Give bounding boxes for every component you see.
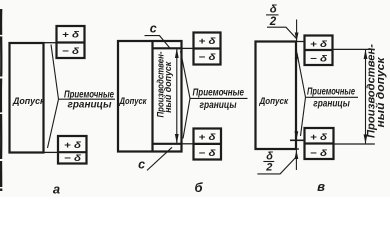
tolerance rectangle (v) xyxy=(256,42,297,150)
svg-text:Допуск: Допуск xyxy=(12,96,45,107)
production tolerance dimension arrow (b) xyxy=(176,49,178,143)
top boundary line extension (a) xyxy=(44,42,57,44)
bottom boundary connector (b) xyxy=(182,143,194,145)
bottom boundary line extension (a) xyxy=(44,151,59,153)
svg-text:δ: δ xyxy=(266,150,273,162)
svg-text:+ δ: + δ xyxy=(310,38,327,49)
top boundary extension right (v) xyxy=(333,48,375,50)
svg-text:− δ: − δ xyxy=(62,45,79,56)
svg-text:границы: границы xyxy=(68,100,112,111)
svg-text:− δ: − δ xyxy=(64,152,81,163)
bottom limit line stub (v) xyxy=(296,148,299,150)
leader line to top boundary (b) xyxy=(181,51,191,98)
callout underline (v) xyxy=(306,96,359,98)
production tolerance dimension arrow (v) xyxy=(365,50,367,143)
tolerance rectangle (a) xyxy=(10,43,44,153)
svg-text:+ δ: + δ xyxy=(62,29,79,40)
svg-text:Приемочные: Приемочные xyxy=(193,87,245,98)
svg-text:− δ: − δ xyxy=(310,52,327,63)
top δ/2 dimension arrows (v) xyxy=(296,20,298,63)
svg-text:Допуск: Допуск xyxy=(259,96,289,107)
svg-text:а: а xyxy=(53,182,60,197)
bottom limit boxes +δ/-δ (a) xyxy=(58,136,87,164)
svg-text:+ δ: + δ xyxy=(199,131,216,142)
leader line to top boundary (v) xyxy=(297,53,306,97)
svg-text:+ δ: + δ xyxy=(199,35,216,46)
production band top edge (b) xyxy=(153,47,182,49)
svg-text:− δ: − δ xyxy=(310,147,327,158)
production band bottom edge (b) xyxy=(153,143,182,145)
svg-text:δ: δ xyxy=(270,4,278,16)
svg-text:ный допуск: ный допуск xyxy=(375,56,387,128)
svg-text:с: с xyxy=(150,21,157,35)
bottom boundary boxes +δ/-δ (v) xyxy=(305,128,334,159)
bottom boundary boxes +δ/-δ (b) xyxy=(194,129,222,160)
top limit line extension (v) xyxy=(296,41,305,43)
bottom boundary extension right (v) xyxy=(334,143,375,145)
svg-text:б: б xyxy=(194,180,203,195)
svg-text:ный допуск: ный допуск xyxy=(163,61,173,112)
top limit boxes +δ/-δ (a) xyxy=(57,26,85,58)
top boundary connector (b) xyxy=(182,47,194,49)
leader line to bottom boundary (v) xyxy=(301,97,306,136)
svg-text:Приемочные: Приемочные xyxy=(307,87,355,98)
top boundary boxes +δ/-δ (b) xyxy=(194,33,221,65)
svg-text:+ δ: + δ xyxy=(310,131,327,142)
top boundary boxes +δ/-δ (v) xyxy=(305,36,333,66)
scan artifact left edge line xyxy=(0,9,2,191)
tolerance rectangle (b) xyxy=(118,41,182,152)
svg-text:− δ: − δ xyxy=(199,51,216,62)
svg-text:Допуск: Допуск xyxy=(119,96,148,107)
svg-text:− δ: − δ xyxy=(199,147,216,158)
svg-text:границы: границы xyxy=(313,98,350,109)
divider line (b) xyxy=(151,41,153,152)
callout underline (b) xyxy=(190,97,248,99)
leader line to bottom boundary (a) xyxy=(48,99,59,148)
svg-text:с: с xyxy=(138,157,145,171)
leader line to top boundary (a) xyxy=(51,45,59,100)
bottom δ/2 dimension arrows (v) xyxy=(295,114,297,170)
bottom boundary line (v) xyxy=(290,139,305,141)
svg-text:+ δ: + δ xyxy=(64,139,81,150)
callout underline (a) xyxy=(59,98,116,100)
svg-text:2: 2 xyxy=(265,162,272,174)
svg-text:2: 2 xyxy=(269,16,277,28)
svg-text:в: в xyxy=(317,179,325,194)
svg-text:границы: границы xyxy=(200,100,237,111)
leader line to bottom boundary (b) xyxy=(183,98,190,138)
